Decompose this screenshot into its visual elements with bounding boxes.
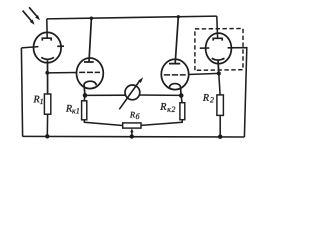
label R1 xyxy=(33,96,39,103)
photocell V4 cathode xyxy=(212,58,225,73)
junction dot V2 cathode node xyxy=(83,93,88,98)
wire top supply rail xyxy=(47,16,217,19)
phototube V1 cathode xyxy=(41,57,54,94)
junction dot wiper at bottom rail xyxy=(130,134,134,138)
triode V3 grid (dashed) xyxy=(164,74,186,76)
junction dot triode V3 anode on rail xyxy=(177,15,180,18)
triode V2 cathode xyxy=(84,81,96,95)
triode V2 grid (dashed) xyxy=(79,71,100,73)
light ray arrow 1 xyxy=(23,11,32,21)
label R2 xyxy=(203,94,209,101)
wire bottom rail xyxy=(22,135,244,138)
wire triode V2 grid to V1 cathode xyxy=(47,72,77,74)
resistor R1 xyxy=(44,94,50,114)
wire meter to V3 cathode xyxy=(139,94,181,96)
junction dot R2 at bottom rail xyxy=(218,135,222,139)
wire Rk2 to potentiometer Rb right end xyxy=(141,120,182,126)
photocell V4 anode plate xyxy=(213,38,222,40)
wire R2 to bottom rail xyxy=(219,115,221,136)
junction dot triode V2 anode on rail xyxy=(90,17,93,20)
wire Rk1 to potentiometer Rb left end xyxy=(84,120,123,126)
wire R1 to bottom rail xyxy=(46,114,48,136)
phototube V1 left contact lead xyxy=(21,47,38,48)
wire left return (V1 side contact to bottom rail) xyxy=(21,48,22,136)
label Rk2 xyxy=(160,103,166,110)
meter (galvanometer) body xyxy=(125,85,140,100)
wire photocell V4 anode lead xyxy=(216,16,219,38)
triode V3 anode xyxy=(169,17,180,64)
triode V3 cathode xyxy=(169,84,181,96)
label Rb xyxy=(130,112,135,118)
junction dot R1 at bottom rail xyxy=(45,134,49,138)
phototube V1 right contact tick xyxy=(57,45,64,47)
wire V3 grid to R2 node xyxy=(188,73,219,74)
photocell V4 left contact tick xyxy=(200,47,210,49)
triode V3 envelope xyxy=(161,59,188,89)
meter needle arrow xyxy=(119,80,140,109)
phototube V1 anode plate xyxy=(42,38,51,40)
resistor Rk1 xyxy=(82,101,87,120)
junction dot grid tap below V1 xyxy=(45,71,49,75)
resistor Rk2 xyxy=(180,103,185,120)
wire V3 cathode to Rk2 xyxy=(180,96,183,103)
junction dot R2 node xyxy=(217,71,221,75)
triode V2 envelope xyxy=(77,58,104,89)
wire V2 cathode to meter xyxy=(85,94,126,96)
wire V2 cathode to Rk1 xyxy=(83,95,86,100)
phototube V1 envelope xyxy=(34,32,62,62)
resistor R2 xyxy=(217,95,224,116)
potentiometer Rb body xyxy=(123,123,141,128)
potentiometer wiper arrow xyxy=(131,132,133,137)
label Rk1 xyxy=(66,105,72,112)
wire R2 node to R2 xyxy=(219,73,220,95)
junction dot V3 cathode node xyxy=(179,93,184,98)
wire phototube V1 anode lead xyxy=(46,19,48,38)
triode V2 anode xyxy=(84,18,94,62)
photocell V4 envelope xyxy=(206,33,232,64)
light ray arrow 2 xyxy=(29,7,37,16)
wire V4 right contact to bottom rail (right return) xyxy=(228,48,247,137)
dashed enclosure box around V4 xyxy=(195,29,243,71)
